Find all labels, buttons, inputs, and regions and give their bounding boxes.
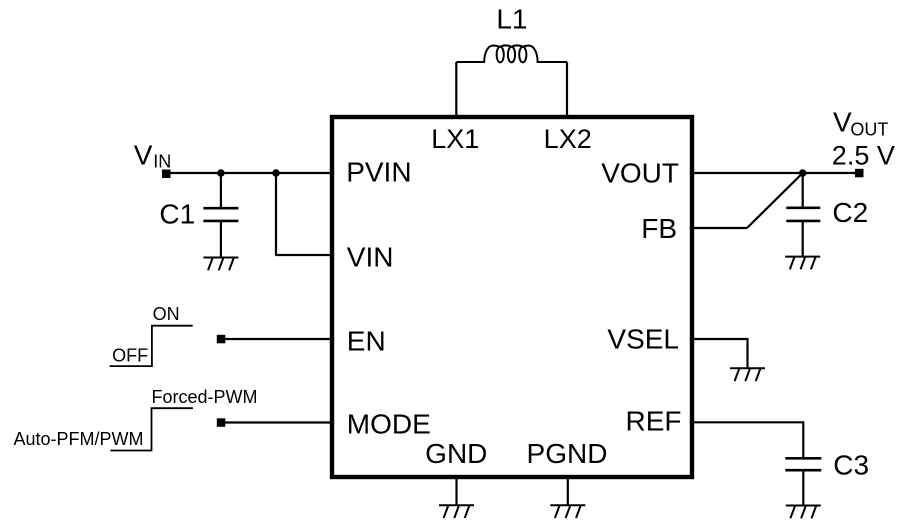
svg-text:Forced-PWM: Forced-PWM xyxy=(152,387,258,407)
node junction dot C1 xyxy=(217,169,225,177)
inductor L1 xyxy=(456,45,567,62)
wire MODE terminal to pin xyxy=(221,421,332,423)
ground PGND xyxy=(550,505,585,518)
wire FB diagonal to VOUT node xyxy=(747,173,803,228)
svg-text:IN: IN xyxy=(153,152,171,172)
MODE step waveform xyxy=(110,408,192,450)
EN step waveform xyxy=(110,326,193,366)
svg-text:FB: FB xyxy=(641,213,677,244)
svg-text:GND: GND xyxy=(425,438,487,469)
svg-text:C3: C3 xyxy=(833,450,869,481)
wire VSEL pin xyxy=(692,339,748,368)
svg-text:REF: REF xyxy=(626,406,682,437)
node MODE terminal square xyxy=(217,418,226,427)
wire FB pin xyxy=(692,227,747,229)
wire LX1 pin xyxy=(455,62,457,117)
svg-text:VIN: VIN xyxy=(347,241,394,272)
svg-text:PVIN: PVIN xyxy=(346,156,411,187)
node junction dot VIN branch xyxy=(272,169,280,177)
capacitor C2 xyxy=(786,173,820,257)
capacitor C1 xyxy=(203,173,238,258)
svg-text:OUT: OUT xyxy=(850,119,888,139)
node VIN terminal square xyxy=(162,170,171,179)
node VOUT terminal square xyxy=(855,169,864,178)
svg-text:PGND: PGND xyxy=(527,438,608,469)
wire LX2 pin xyxy=(566,62,568,117)
wire PGND pin xyxy=(567,477,569,505)
ground VSEL xyxy=(730,368,765,381)
wire VIN branch down xyxy=(276,173,332,255)
wire REF pin xyxy=(692,422,803,458)
capacitor C3 xyxy=(785,458,821,505)
svg-text:C1: C1 xyxy=(159,199,195,230)
svg-text:V: V xyxy=(833,107,852,138)
svg-text:L1: L1 xyxy=(496,4,527,35)
svg-text:VOUT: VOUT xyxy=(601,157,679,188)
node EN terminal square xyxy=(217,335,226,344)
op-amp U1 IC body xyxy=(332,117,692,477)
svg-text:MODE: MODE xyxy=(347,409,431,440)
svg-text:LX1: LX1 xyxy=(431,124,479,154)
svg-text:LX2: LX2 xyxy=(544,124,592,154)
svg-text:C2: C2 xyxy=(832,197,868,228)
ground GND xyxy=(439,505,474,518)
wire VOUT pin to terminal xyxy=(692,172,859,174)
wire GND pin xyxy=(455,477,457,505)
wire VIN terminal to PVIN pin xyxy=(166,172,332,174)
svg-text:2.5 V: 2.5 V xyxy=(832,140,895,170)
ground C3 xyxy=(786,506,821,519)
svg-text:VSEL: VSEL xyxy=(607,324,679,355)
svg-text:OFF: OFF xyxy=(112,345,148,365)
ground C2 xyxy=(785,257,820,270)
svg-text:ON: ON xyxy=(153,304,180,324)
svg-text:Auto-PFM/PWM: Auto-PFM/PWM xyxy=(14,429,144,449)
node junction dot VOUT xyxy=(799,169,807,177)
wire EN terminal to pin xyxy=(221,338,332,340)
svg-text:EN: EN xyxy=(347,325,386,356)
svg-text:V: V xyxy=(134,140,153,171)
ground C1 xyxy=(203,258,238,271)
